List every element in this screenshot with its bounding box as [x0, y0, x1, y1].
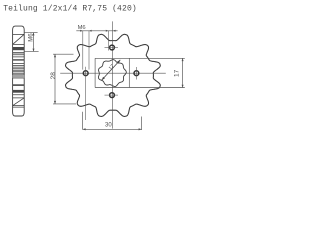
side view dark bands [13, 47, 25, 50]
svg-text:17: 17 [174, 69, 181, 77]
right hole vertical tick [135, 67, 137, 80]
side view gray band [13, 75, 25, 78]
dimension M6 (side view tooth width) extension lines [25, 33, 39, 52]
dimension 28 dim line [54, 54, 56, 104]
side view hatch diagonal bottom [13, 98, 24, 105]
M6 extension lines to left hole [83, 31, 89, 70]
sprocket front view toothed outline [66, 34, 161, 116]
dimension M6 side dim line [33, 33, 35, 52]
dimension 30 extension lines [83, 112, 142, 130]
splined center bore [99, 60, 127, 87]
horizontal centerline [60, 72, 166, 74]
bolt hole bottom horizontal tick [105, 94, 119, 96]
left hole vertical centerline descender [85, 67, 87, 120]
bolt hole top horizontal tick [105, 47, 119, 49]
M6 extension line to top hole [107, 31, 109, 51]
dimension 17 dim line [182, 58, 184, 87]
bolt hole M6 right [134, 71, 139, 76]
center recess square and 17-dim extension lines [95, 58, 185, 87]
dimension 30 dim line [83, 128, 142, 130]
side view hatch diagonal top [13, 35, 24, 45]
svg-text:17: 17 [108, 63, 116, 71]
svg-text:M6: M6 [28, 33, 34, 42]
bolt hole M6 left [83, 71, 88, 76]
M6 top dimension line [76, 30, 117, 32]
vertical centerline [111, 21, 113, 128]
dimension 28 extension lines [53, 54, 76, 104]
svg-text:28: 28 [50, 72, 57, 80]
bore diameter diagonal dimension line [102, 60, 121, 80]
svg-text:M6: M6 [78, 25, 86, 31]
svg-text:30: 30 [105, 123, 112, 129]
side view sprocket section outline [13, 26, 25, 116]
bolt hole M6 top [110, 45, 115, 50]
bolt hole M6 bottom [110, 93, 115, 98]
svg-text:Teilung 1/2x1/4 R7,75 (420): Teilung 1/2x1/4 R7,75 (420) [3, 5, 137, 14]
side view section lines [13, 34, 25, 107]
